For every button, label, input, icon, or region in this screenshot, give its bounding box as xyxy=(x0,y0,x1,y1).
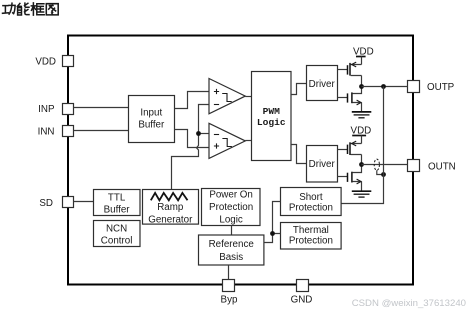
svg-text:Ramp: Ramp xyxy=(157,202,184,213)
transistor Q2 NMOS (low side, OUTP) xyxy=(338,87,362,112)
svg-text:Generator: Generator xyxy=(148,214,193,225)
svg-text:TTL: TTL xyxy=(108,193,126,204)
block Ramp Generator xyxy=(143,190,199,226)
ground (stage 2) xyxy=(352,191,372,197)
block Driver 1 xyxy=(307,66,338,101)
transistor Q3 PMOS (high side, OUTN) xyxy=(338,141,362,164)
svg-text:INP: INP xyxy=(38,104,55,115)
wire INN to Input Buffer xyxy=(74,130,129,132)
wire ramp generator to comparator inverting inputs (with hop) xyxy=(172,105,210,190)
svg-text:INN: INN xyxy=(38,126,55,137)
pin VDD (left) xyxy=(35,56,73,68)
wire PWM Logic to Driver1 xyxy=(291,84,306,95)
svg-text:Protection: Protection xyxy=(289,235,333,246)
pin Byp (bottom) xyxy=(221,280,238,306)
svg-text:SD: SD xyxy=(39,198,53,209)
wire INP to Input Buffer xyxy=(74,107,129,109)
title 功能框图 (hand-drawn CJK strokes) xyxy=(3,3,59,15)
VDD label output stage 1 xyxy=(353,46,374,64)
pin SD xyxy=(39,197,73,210)
svg-text:Logic: Logic xyxy=(219,214,243,225)
svg-text:NCN: NCN xyxy=(106,223,127,234)
node protection junction xyxy=(270,231,275,236)
block Reference Basis xyxy=(199,235,264,265)
comparator U1 xyxy=(209,79,245,114)
pin INN xyxy=(38,126,74,138)
svg-text:Driver: Driver xyxy=(309,79,336,90)
svg-text:Input: Input xyxy=(140,108,162,119)
wire Reference Basis to Byp pin xyxy=(228,265,230,280)
VDD label output stage 2 xyxy=(351,125,372,143)
block Power On Protection Logic xyxy=(202,189,261,226)
svg-text:Basis: Basis xyxy=(219,252,243,263)
transistor Q4 NMOS (low side, OUTN) xyxy=(338,165,362,191)
block Thermal Protection xyxy=(281,223,342,250)
IC boundary border xyxy=(68,36,413,285)
svg-text:Logic: Logic xyxy=(257,117,286,128)
block PWM Logic xyxy=(252,72,292,161)
svg-text:VDD: VDD xyxy=(35,56,56,67)
svg-text:Byp: Byp xyxy=(221,294,238,305)
svg-text:Control: Control xyxy=(101,235,133,246)
wire Input Buffer top out to comparator U1 + xyxy=(175,92,210,109)
svg-text:Protection: Protection xyxy=(209,202,253,213)
svg-text:VDD: VDD xyxy=(353,46,374,57)
svg-text:OUTP: OUTP xyxy=(427,82,455,93)
block Input Buffer xyxy=(129,96,175,143)
svg-text:Protection: Protection xyxy=(289,203,333,214)
svg-text:Power On: Power On xyxy=(209,190,253,201)
svg-text:OUTN: OUTN xyxy=(428,161,456,172)
svg-text:PWM: PWM xyxy=(263,106,281,117)
svg-text:Buffer: Buffer xyxy=(104,205,131,216)
svg-text:Short: Short xyxy=(299,192,323,203)
wire PWM Logic to Driver2 xyxy=(291,145,306,164)
pin OUTP (right) xyxy=(408,81,455,93)
wire OUTN node to pin xyxy=(362,164,408,166)
wire sense tap to sense line xyxy=(377,170,384,174)
wire U1 output to PWM Logic xyxy=(245,96,251,98)
block NCN Control xyxy=(94,221,141,247)
svg-text:Reference: Reference xyxy=(209,239,255,250)
block Driver 2 xyxy=(307,146,338,183)
svg-text:Driver: Driver xyxy=(309,159,336,170)
wire junction to comparator U2 - input xyxy=(199,133,210,135)
current sense dashed ellipse on OUTN wire xyxy=(374,159,379,170)
comparator U2 xyxy=(209,123,245,158)
svg-text:CSDN @weixin_37613240: CSDN @weixin_37613240 xyxy=(352,298,466,309)
svg-text:Buffer: Buffer xyxy=(138,120,165,131)
node OUTP drain junction xyxy=(359,84,364,89)
block TTL Buffer xyxy=(94,190,141,216)
wire sense vertical line to Short Protection xyxy=(341,87,383,204)
block Short Protection xyxy=(281,188,342,216)
pin INP xyxy=(38,104,73,115)
wire OUTP node to pin xyxy=(362,86,408,88)
wire Reference Basis / protections junction xyxy=(264,202,281,243)
pin OUTN (right) xyxy=(408,160,456,173)
node sense join xyxy=(381,172,386,177)
wire U2 output to PWM Logic xyxy=(245,140,251,142)
ground (stage 1) xyxy=(352,112,372,118)
wire Input Buffer bottom out to comparator U2 + xyxy=(175,130,210,148)
node junction ramp/U2- xyxy=(196,131,201,136)
pin GND (bottom) xyxy=(291,280,313,306)
node OUTN drain junction xyxy=(359,162,364,167)
node OUTP sense tap xyxy=(381,84,386,89)
wire SD to TTL Buffer xyxy=(74,201,94,203)
svg-text:GND: GND xyxy=(291,294,313,305)
transistor Q1 PMOS (high side, OUTP) xyxy=(338,62,362,86)
wire Power On Protection to Reference Basis xyxy=(231,226,233,236)
